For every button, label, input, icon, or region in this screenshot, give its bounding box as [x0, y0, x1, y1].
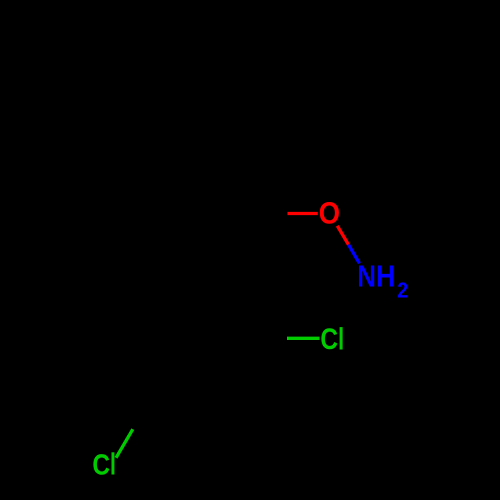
- svg-text:O: O: [319, 195, 340, 230]
- svg-text:C: C: [320, 323, 338, 356]
- svg-text:C: C: [92, 449, 110, 481]
- svg-text:N: N: [357, 259, 376, 293]
- svg-text:H: H: [376, 259, 395, 293]
- svg-text:2: 2: [397, 278, 408, 303]
